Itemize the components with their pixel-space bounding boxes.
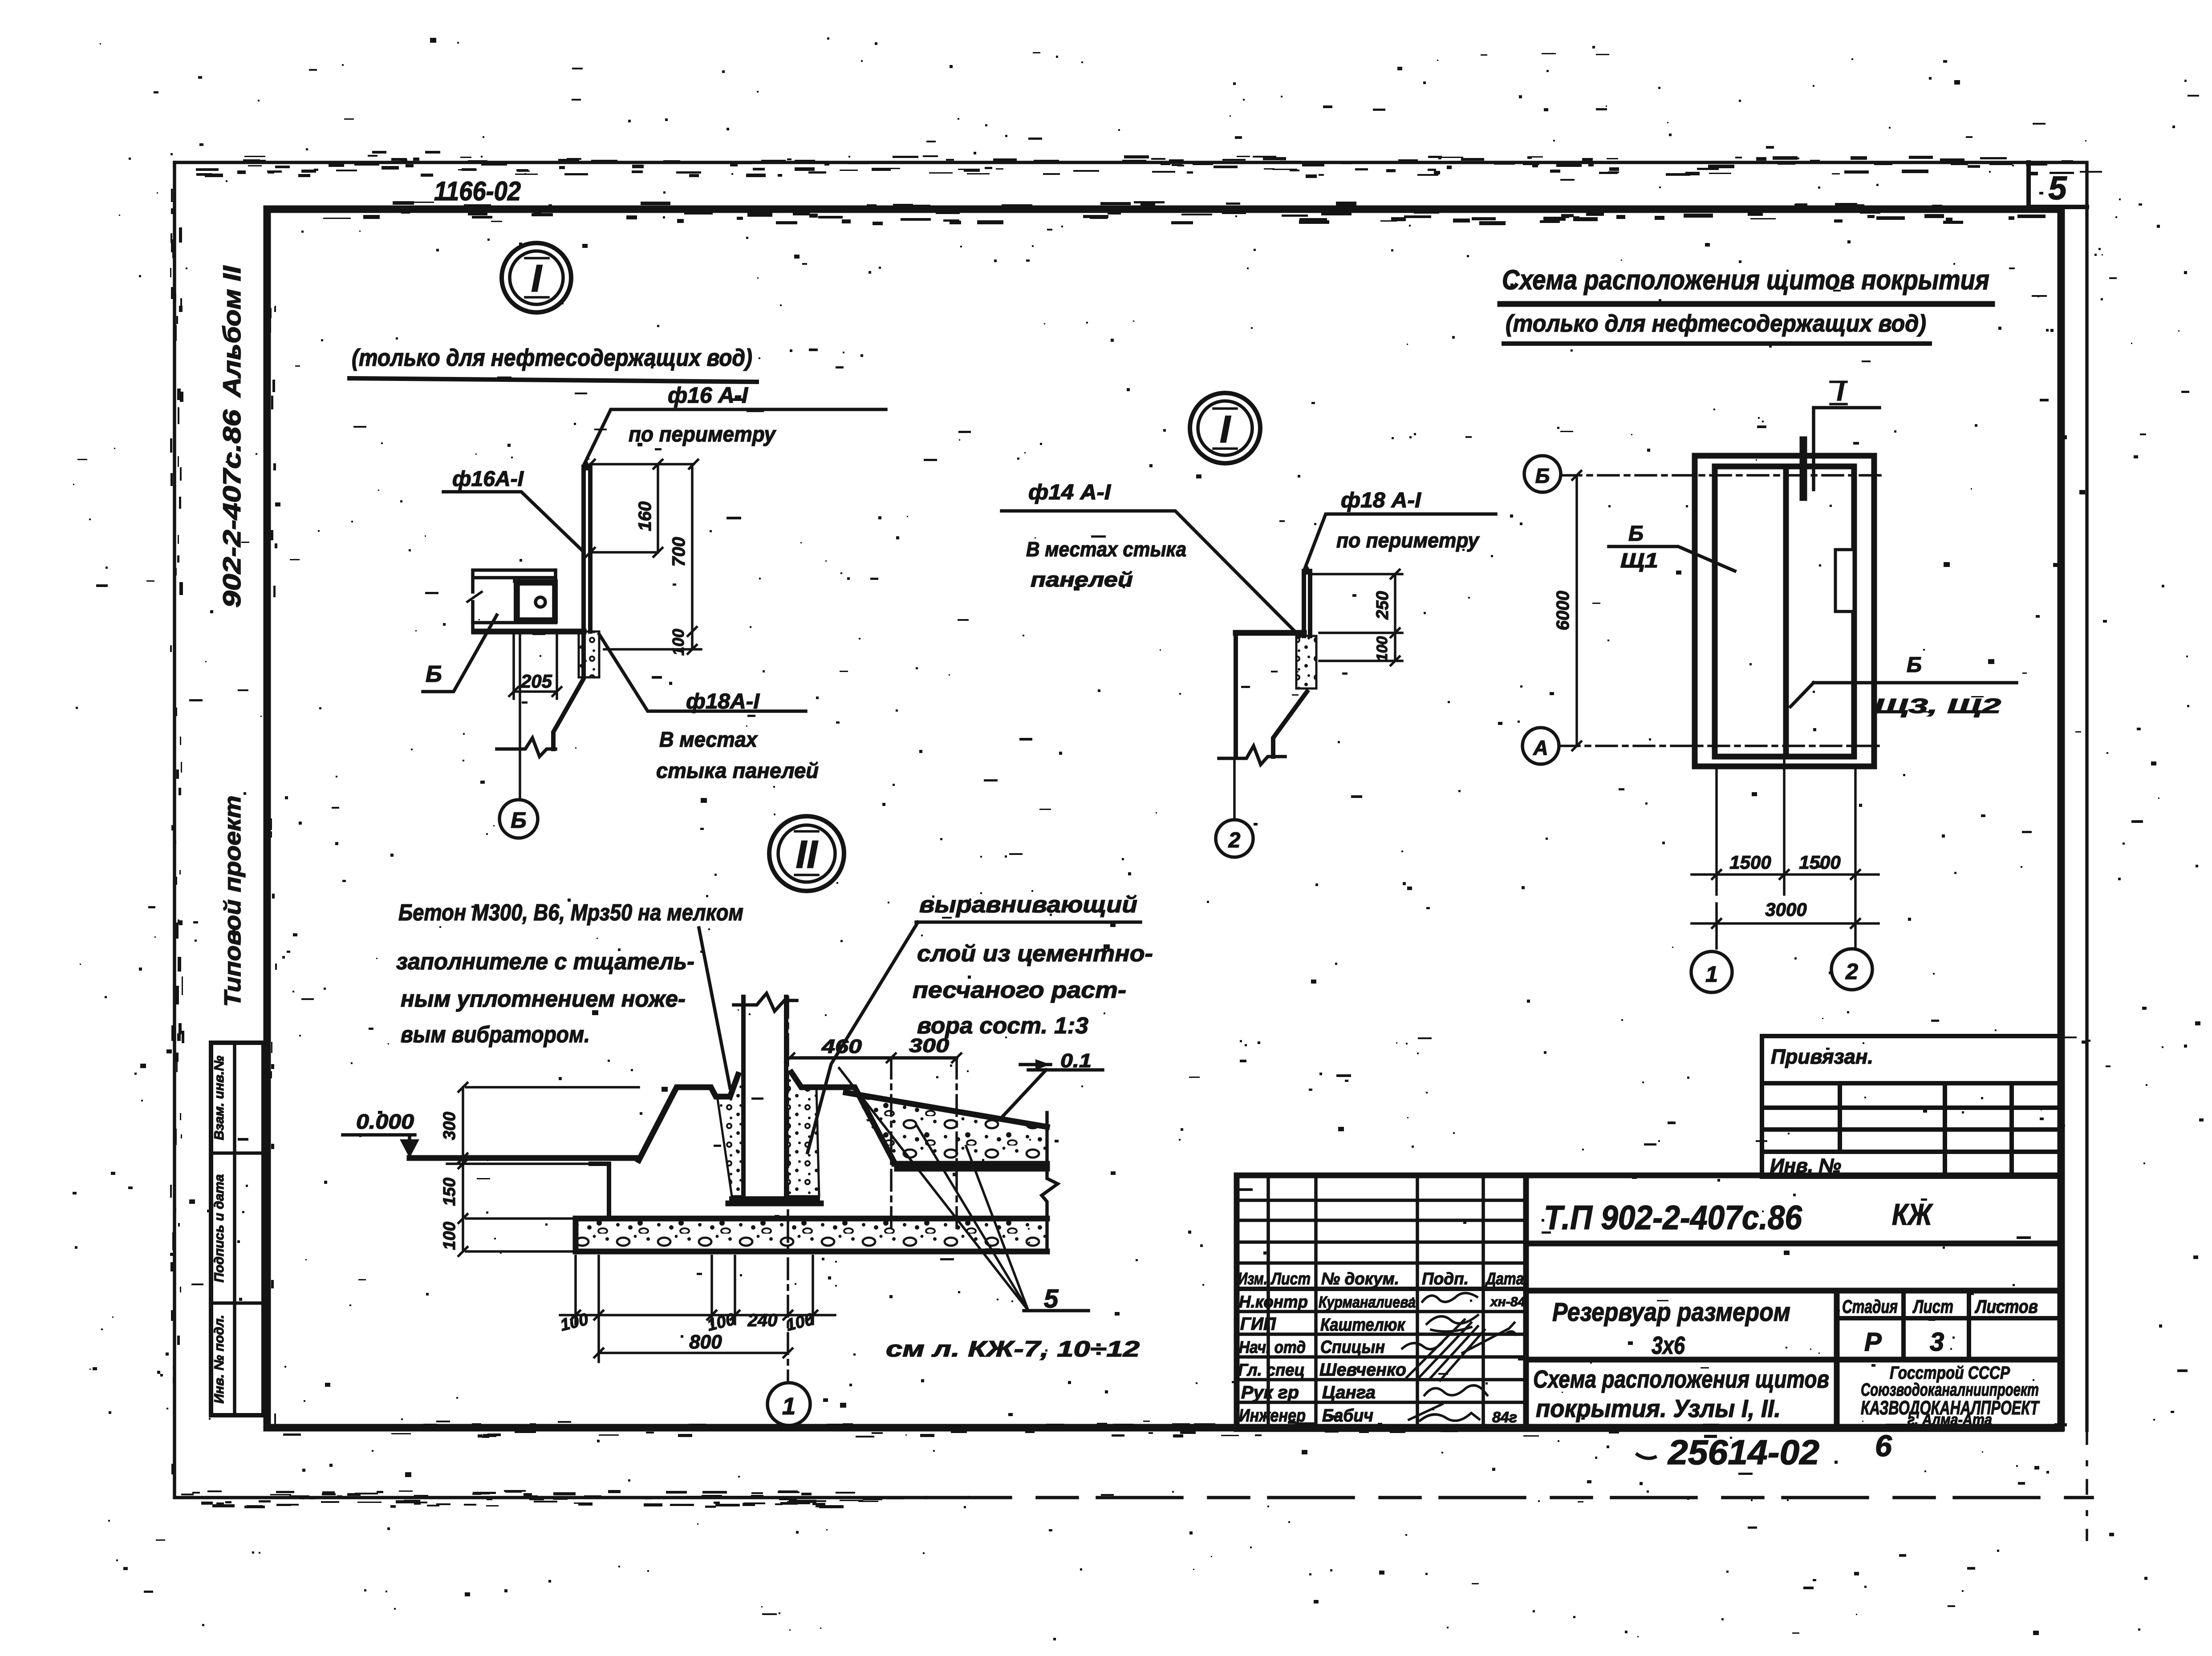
plan: outer slab rectangle xyxy=(1695,456,1874,766)
svg-text:№ докум.: № докум. xyxy=(1321,1270,1399,1288)
caption (только для нефтесодержащих вод) left xyxy=(349,344,757,382)
svg-text:(только для нефтесодержащих во: (только для нефтесодержащих вод) xyxy=(352,344,752,371)
title block: organization xyxy=(1861,1363,2040,1429)
svg-text:6: 6 xyxy=(1875,1429,1892,1463)
plan: panel divider xyxy=(1783,466,1789,757)
node I: wall below joint xyxy=(497,632,584,757)
svg-text:г. Алма-Ата: г. Алма-Ата xyxy=(1908,1410,1992,1429)
svg-text:песчаного раст-: песчаного раст- xyxy=(913,977,1126,1003)
plan: dimension 3000 xyxy=(1692,899,1879,928)
svg-text:250: 250 xyxy=(1373,591,1392,619)
svg-text:хн-84: хн-84 xyxy=(1490,1295,1525,1309)
svg-text:Б: Б xyxy=(1907,653,1922,677)
header number 1166-02 xyxy=(434,176,521,206)
svg-text:Курманалиева: Курманалиева xyxy=(1319,1293,1416,1311)
margin label Альбом II xyxy=(218,265,246,398)
svg-text:1500: 1500 xyxy=(1799,852,1840,873)
svg-text:Лист: Лист xyxy=(1270,1270,1311,1288)
node II: bottom dimensions 100/100/240/100 xyxy=(558,1256,835,1362)
svg-text:покрытия. Узлы I, II.: покрытия. Узлы I, II. xyxy=(1536,1394,1781,1422)
svg-text:Стадия: Стадия xyxy=(1842,1296,1898,1317)
node II: slope mark 0.1 xyxy=(1002,1050,1103,1117)
privyazan reference table xyxy=(1762,1036,2062,1177)
title block frame xyxy=(1237,1175,2061,1429)
plan: bottom dimensions 1500 1500 xyxy=(1692,757,1879,948)
node I: leader Б xyxy=(423,615,497,692)
svg-text:460: 460 xyxy=(821,1036,862,1057)
svg-text:150: 150 xyxy=(440,1178,459,1206)
svg-text:5: 5 xyxy=(2048,170,2067,206)
svg-text:Бетон М300, В6, Мрз50 на мелко: Бетон М300, В6, Мрз50 на мелком xyxy=(398,900,743,926)
svg-text:160: 160 xyxy=(635,502,655,531)
svg-text:Б: Б xyxy=(511,808,526,833)
node II: right break line xyxy=(1042,1113,1058,1251)
title block: middle band xyxy=(1526,1291,2061,1429)
title block: signature rows xyxy=(1238,1293,1525,1426)
plan: leader Б/Щ1 xyxy=(1609,522,1735,572)
svg-text:ф16А-I: ф16А-I xyxy=(452,467,524,491)
svg-text:Подпись и дата: Подпись и дата xyxy=(212,1174,227,1282)
node 2: joint concrete fill xyxy=(1296,636,1316,688)
plan: inner panels rectangle xyxy=(1715,466,1854,757)
margin stamp column xyxy=(211,1043,264,1415)
detail circle II xyxy=(769,816,844,891)
svg-text:ГИП: ГИП xyxy=(1240,1314,1276,1334)
svg-text:2: 2 xyxy=(1845,959,1858,984)
node II: wall panel in socket xyxy=(734,993,797,1197)
node I: callout ф18А-I В местах стыка панелей xyxy=(599,634,819,783)
svg-text:Т.П 902-2-407с.86: Т.П 902-2-407с.86 xyxy=(1544,1199,1802,1237)
node II note: выравнивающий слой ... xyxy=(808,892,1153,1153)
node 2: callout ф18 А-I по периметру xyxy=(1304,489,1496,571)
detail circle I (left) xyxy=(502,243,571,312)
title block: revision table columns xyxy=(1237,1175,1526,1429)
svg-text:Альбом II: Альбом II xyxy=(218,265,246,398)
svg-text:0.000: 0.000 xyxy=(356,1110,414,1133)
svg-text:84г: 84г xyxy=(1492,1409,1517,1426)
plan: axis Б xyxy=(1524,456,1882,492)
svg-text:1166-02: 1166-02 xyxy=(434,176,521,206)
plan: section mark I flag xyxy=(1803,377,1879,497)
svg-text:В местах стыка: В местах стыка xyxy=(1026,538,1186,561)
title block: signature scribbles xyxy=(1402,1293,1516,1421)
svg-text:Щ1: Щ1 xyxy=(1620,549,1658,572)
title block: sheet title xyxy=(1526,1360,2061,1422)
svg-text:А: А xyxy=(1533,736,1548,759)
node II: dimension 460 / 300 xyxy=(785,1035,961,1233)
svg-text:700: 700 xyxy=(669,537,689,567)
svg-text:Привязан.: Привязан. xyxy=(1771,1045,1873,1068)
node II: foundation outline xyxy=(410,1073,1047,1219)
svg-text:по периметру: по периметру xyxy=(1336,529,1480,552)
svg-text:Б: Б xyxy=(1535,464,1550,487)
svg-text:2: 2 xyxy=(1228,829,1241,852)
svg-text:Н.контр: Н.контр xyxy=(1239,1293,1308,1312)
handwritten archive number 25614-02 xyxy=(1637,1429,1892,1472)
node II: bottom bedding slab xyxy=(576,1219,1047,1251)
svg-text:Р: Р xyxy=(1864,1328,1882,1356)
svg-text:выравнивающий: выравнивающий xyxy=(919,892,1137,918)
svg-text:300: 300 xyxy=(440,1112,459,1140)
svg-text:100: 100 xyxy=(1374,636,1391,662)
svg-text:ным уплотнением ноже-: ным уплотнением ноже- xyxy=(401,986,686,1012)
svg-text:II: II xyxy=(796,832,818,876)
title block: document designation xyxy=(1526,1198,2061,1243)
sheet outer border xyxy=(175,162,2092,1540)
node I: dimension 205 xyxy=(509,632,561,699)
node I: roof panel (vertical) with rebar xyxy=(581,460,592,632)
svg-text:вым вибратором.: вым вибратором. xyxy=(401,1022,590,1048)
node 2: dimensions 250 / 100 xyxy=(1310,570,1402,665)
node I: callout ф16 А-I по периметру xyxy=(584,383,886,466)
svg-text:Рук гр: Рук гр xyxy=(1241,1383,1299,1402)
svg-text:3х6: 3х6 xyxy=(1652,1331,1685,1359)
svg-text:Инв. № подл.: Инв. № подл. xyxy=(212,1315,227,1403)
title block: revision header row xyxy=(1238,1270,1524,1288)
svg-text:Б: Б xyxy=(426,661,442,687)
svg-text:Шевченко: Шевченко xyxy=(1319,1360,1406,1380)
node I: dimension 700 and 100 xyxy=(604,460,701,656)
svg-text:Спицын: Спицын xyxy=(1320,1337,1385,1357)
plan: axis circle 1 xyxy=(1691,928,1732,992)
svg-text:100: 100 xyxy=(440,1222,459,1250)
plan: axis А xyxy=(1522,728,1882,764)
svg-text:КЖ: КЖ xyxy=(1892,1198,1933,1231)
svg-text:панелей: панелей xyxy=(1031,568,1133,591)
node I: dimension 160 xyxy=(586,460,694,557)
node I: callout ф16А-I (left) xyxy=(443,467,584,552)
svg-text:800: 800 xyxy=(689,1331,722,1353)
svg-text:I: I xyxy=(531,257,543,300)
svg-text:Схема расположения щитов покр: Схема расположения щитов покрытия xyxy=(1502,265,1989,296)
node I: floor slab section with anchor plate xyxy=(467,570,584,632)
margin label 902-2-407с.86 xyxy=(218,409,246,607)
svg-text:Б: Б xyxy=(1628,522,1644,546)
svg-text:ф18А-I: ф18А-I xyxy=(686,690,760,713)
svg-text:240: 240 xyxy=(747,1311,778,1330)
svg-text:заполнителе с тщатель-: заполнителе с тщатель- xyxy=(396,949,694,975)
svg-text:см л. КЖ-7, 10÷12: см л. КЖ-7, 10÷12 xyxy=(886,1336,1140,1361)
svg-text:Каштелюк: Каштелюк xyxy=(1320,1315,1405,1335)
svg-text:Дата: Дата xyxy=(1485,1270,1524,1288)
svg-text:Резервуар размером: Резервуар размером xyxy=(1552,1298,1790,1327)
svg-text:Щ3, Щ2: Щ3, Щ2 xyxy=(1874,694,2001,717)
node II: socket concrete wedges xyxy=(716,1073,819,1196)
plan: dimension 6000 xyxy=(1553,471,1581,750)
node II: mortar bed under panel xyxy=(728,1196,821,1203)
node II: levelling screed (slope) xyxy=(846,1093,1047,1167)
node II: elevation mark 0.000 xyxy=(343,1110,419,1158)
node II note: Бетон М300 ... xyxy=(396,900,743,1088)
svg-text:1: 1 xyxy=(1705,962,1718,987)
svg-text:Цанга: Цанга xyxy=(1322,1383,1376,1402)
svg-text:Изм.: Изм. xyxy=(1238,1270,1267,1288)
svg-text:Лист: Лист xyxy=(1912,1296,1953,1317)
plan: leader Б/Щ3,Щ2 xyxy=(1790,653,2017,717)
node II: left dimension stack 300/150/100 xyxy=(440,1083,639,1256)
svg-text:1: 1 xyxy=(782,1393,796,1420)
sheet number box 5 xyxy=(2029,162,2087,207)
svg-text:205: 205 xyxy=(520,671,552,692)
svg-text:25614-02: 25614-02 xyxy=(1667,1433,1819,1472)
svg-text:1500: 1500 xyxy=(1729,852,1771,873)
node II: dimension 800 xyxy=(594,1331,792,1357)
node II: position leader 5 xyxy=(839,1068,1088,1313)
scheme title xyxy=(1500,265,1992,344)
svg-text:0.1: 0.1 xyxy=(1060,1050,1092,1072)
svg-text:слой из цементно-: слой из цементно- xyxy=(917,941,1153,967)
svg-text:300: 300 xyxy=(909,1035,950,1057)
node 2: callout ф14 А-I В местах стыка панелей xyxy=(1002,481,1300,636)
svg-text:Нач. отд: Нач. отд xyxy=(1239,1338,1306,1357)
svg-text:ф16 А-I: ф16 А-I xyxy=(668,383,748,408)
svg-text:I: I xyxy=(1220,408,1231,451)
svg-text:Взам. инв.№: Взам. инв.№ xyxy=(212,1056,227,1140)
title block: stage/sheet cells xyxy=(1837,1291,2061,1360)
svg-text:по периметру: по периметру xyxy=(629,423,776,446)
svg-text:3: 3 xyxy=(1930,1328,1944,1356)
plan: hatch opening rect xyxy=(1835,550,1854,611)
node I: joint concrete fill strip xyxy=(579,632,599,677)
svg-text:5: 5 xyxy=(1044,1284,1059,1313)
svg-text:Гл. спец: Гл. спец xyxy=(1238,1361,1305,1380)
svg-text:ф14 А-I: ф14 А-I xyxy=(1028,481,1112,504)
svg-text:3000: 3000 xyxy=(1765,899,1806,920)
svg-text:стыка панелей: стыка панелей xyxy=(656,759,819,783)
node I: axis line to circle Б xyxy=(499,632,538,838)
margin label Типовой проект xyxy=(220,796,246,1007)
detail circle I (right) xyxy=(1190,393,1260,463)
plan: axis circle 2 xyxy=(1831,949,1872,990)
svg-text:Листов: Листов xyxy=(1974,1296,2038,1317)
svg-text:Подп.: Подп. xyxy=(1422,1270,1469,1288)
node II: axis line and circle 1 xyxy=(767,997,810,1425)
svg-text:902-2-407с.86: 902-2-407с.86 xyxy=(218,409,246,607)
svg-text:ф18 А-I: ф18 А-I xyxy=(1341,489,1422,512)
inner frame xyxy=(267,209,2061,1428)
svg-text:(только для нефтесодержащих во: (только для нефтесодержащих вод) xyxy=(1506,310,1926,337)
node 2: roof panel xyxy=(1302,564,1312,636)
svg-text:6000: 6000 xyxy=(1553,591,1573,631)
node 2: axis to circle 2 xyxy=(1216,758,1253,857)
svg-text:100: 100 xyxy=(669,629,687,656)
svg-text:В местах: В местах xyxy=(659,728,758,752)
svg-text:Типовой проект: Типовой проект xyxy=(220,796,246,1007)
node II: reference см л. КЖ-7, 10÷12 xyxy=(886,1336,1140,1361)
svg-text:Схема расположения щитов: Схема расположения щитов xyxy=(1533,1365,1829,1393)
node 2: floor slab line and wall below xyxy=(1219,633,1307,765)
